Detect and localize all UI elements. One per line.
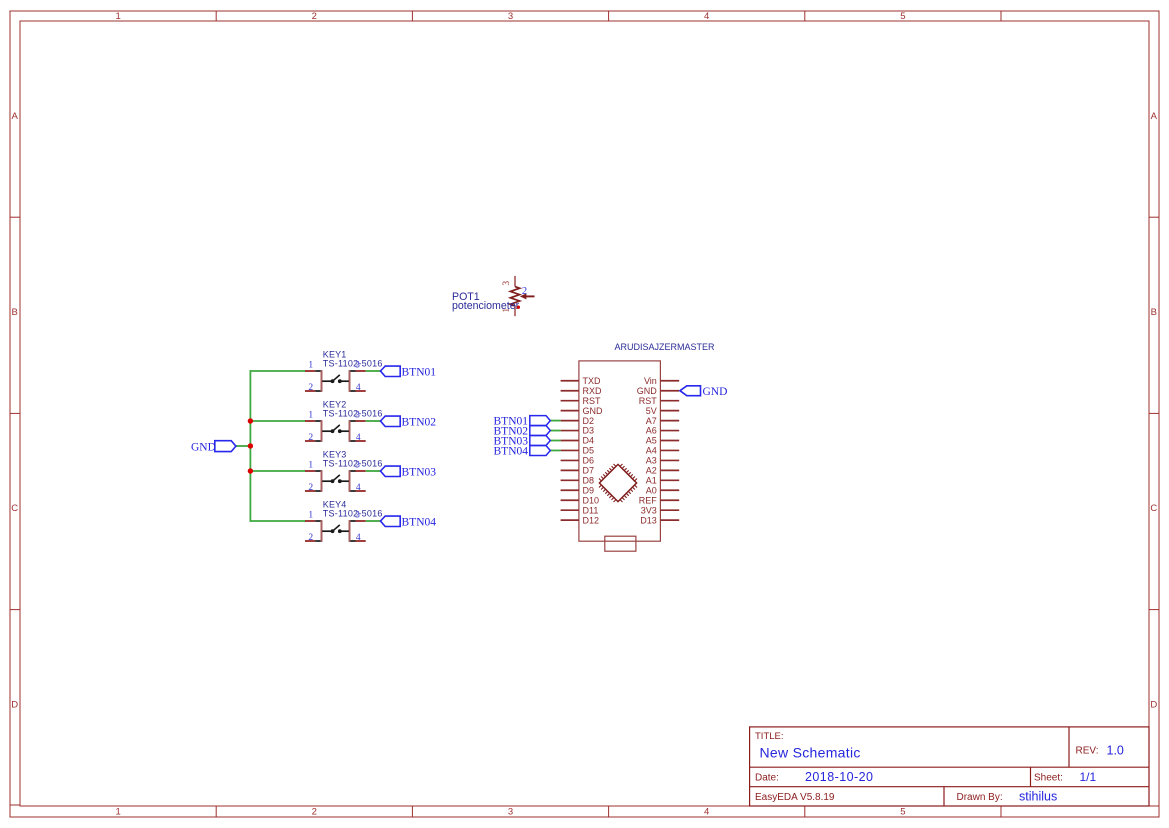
pin 4 lead KEY2 <box>356 440 366 442</box>
svg-text:TXD: TXD <box>583 376 602 386</box>
pin A1 (right) <box>660 479 679 481</box>
switch KEY4 TS-1102-5016 <box>305 499 383 542</box>
svg-text:3: 3 <box>502 281 512 286</box>
svg-text:A3: A3 <box>646 456 657 466</box>
pin A7 (right) <box>660 420 679 422</box>
svg-text:RST: RST <box>639 396 658 406</box>
pin A0 (right) <box>660 489 679 491</box>
svg-text:potenciometer: potenciometer <box>452 300 520 312</box>
svg-text:BTN01: BTN01 <box>402 366 437 378</box>
pin 2 lead KEY2 <box>305 440 315 442</box>
svg-text:TS-1102-5016: TS-1102-5016 <box>323 509 383 519</box>
pin D7 (left) <box>561 469 579 471</box>
svg-text:A: A <box>12 111 19 122</box>
svg-text:A0: A0 <box>646 485 657 495</box>
net flag GND (at U1 GND pin) <box>680 386 727 398</box>
net flag BTN03 (at U1 D4) <box>494 436 551 448</box>
pin 2 lead KEY4 <box>305 540 315 542</box>
svg-text:C: C <box>11 503 18 514</box>
wire KEY4 pin1 branch <box>250 520 306 522</box>
wire BTN03 flag to D4 <box>550 440 561 442</box>
svg-text:1: 1 <box>115 807 120 818</box>
pin 4 lead KEY3 <box>356 490 366 492</box>
pin D8 (left) <box>561 479 579 481</box>
svg-text:D6: D6 <box>583 456 595 466</box>
net flag BTN04 (at U1 D5) <box>494 446 551 458</box>
switch KEY3 TS-1102-5016 <box>305 449 383 492</box>
pin D3 (left) <box>561 430 579 432</box>
svg-text:2: 2 <box>308 533 313 543</box>
svg-text:TS-1102-5016: TS-1102-5016 <box>323 359 383 369</box>
pin 3 lead KEY2 <box>356 420 366 422</box>
pin D12 (left) <box>561 519 579 521</box>
usb connector rect <box>605 536 636 551</box>
svg-text:4: 4 <box>356 433 361 443</box>
title block <box>750 727 1149 806</box>
svg-text:D: D <box>1150 699 1157 710</box>
pin REF (right) <box>660 499 679 501</box>
svg-text:B: B <box>1151 307 1157 318</box>
pin A3 (right) <box>660 459 679 461</box>
pin 2 lead KEY1 <box>305 390 315 392</box>
pin 4 lead KEY4 <box>356 540 366 542</box>
svg-text:D4: D4 <box>583 436 595 446</box>
pin 1 lead KEY3 <box>305 470 315 472</box>
svg-text:3: 3 <box>355 411 360 421</box>
junction at KEY2 branch <box>248 418 253 423</box>
svg-text:2018-10-20: 2018-10-20 <box>805 770 873 784</box>
net flag BTN01 (at U1 D2) <box>494 416 551 428</box>
svg-text:BTN04: BTN04 <box>494 446 529 458</box>
wire BTN02 flag to D3 <box>550 430 561 432</box>
svg-text:A7: A7 <box>646 416 657 426</box>
svg-text:4: 4 <box>356 483 361 493</box>
pin 5V (right) <box>660 410 679 412</box>
pin A2 (right) <box>660 469 679 471</box>
wire GND flag stub <box>236 445 251 447</box>
wiper arrow pin 2 <box>525 295 535 297</box>
svg-text:D9: D9 <box>583 485 595 495</box>
svg-text:2: 2 <box>308 483 313 493</box>
svg-text:Drawn By:: Drawn By: <box>957 792 1003 803</box>
svg-text:A6: A6 <box>646 426 657 436</box>
svg-text:D12: D12 <box>583 515 600 525</box>
net flag GND (left) <box>191 441 236 454</box>
pin 1 lead KEY2 <box>305 420 315 422</box>
pin 1 lead KEY4 <box>305 520 315 522</box>
svg-text:3: 3 <box>355 361 360 371</box>
svg-text:D10: D10 <box>583 495 600 505</box>
net flag BTN04 (at KEY4) <box>381 516 437 528</box>
svg-text:1: 1 <box>115 11 120 22</box>
pin D4 (left) <box>561 440 579 442</box>
net flag BTN01 (at KEY1) <box>381 366 437 378</box>
svg-text:2: 2 <box>312 807 317 818</box>
wire KEY3 pin3 to BTN03 flag <box>366 470 381 472</box>
svg-text:D8: D8 <box>583 476 595 486</box>
svg-text:BTN04: BTN04 <box>402 516 437 528</box>
svg-text:A1: A1 <box>646 476 657 486</box>
svg-text:4: 4 <box>704 807 709 818</box>
svg-text:TITLE:: TITLE: <box>755 731 784 742</box>
svg-text:3: 3 <box>508 11 513 22</box>
svg-text:5: 5 <box>900 11 905 22</box>
svg-text:stihilus: stihilus <box>1019 789 1057 803</box>
pin D10 (left) <box>561 499 579 501</box>
svg-text:Vin: Vin <box>644 376 657 386</box>
svg-text:ARUDISAJZERMASTER: ARUDISAJZERMASTER <box>614 342 715 352</box>
pin A4 (right) <box>660 449 679 451</box>
switch KEY1 TS-1102-5016 <box>305 349 383 392</box>
pin 4 lead KEY1 <box>356 390 366 392</box>
svg-text:D7: D7 <box>583 466 595 476</box>
wire KEY2 pin1 branch <box>250 420 305 422</box>
svg-text:B: B <box>12 307 18 318</box>
svg-text:2: 2 <box>308 433 313 443</box>
svg-text:1/1: 1/1 <box>1080 770 1097 784</box>
pin 3 lead KEY4 <box>356 520 366 522</box>
wire BTN04 flag to D5 <box>550 449 561 451</box>
svg-text:RXD: RXD <box>583 386 603 396</box>
svg-text:3: 3 <box>355 511 360 521</box>
svg-text:GND: GND <box>583 406 604 416</box>
svg-text:BTN03: BTN03 <box>402 466 437 478</box>
svg-text:1: 1 <box>308 511 313 521</box>
svg-text:A2: A2 <box>646 466 657 476</box>
svg-text:3V3: 3V3 <box>641 505 657 515</box>
net flag BTN02 (at KEY2) <box>381 416 437 428</box>
junction at KEY3 branch <box>248 468 253 473</box>
svg-text:TS-1102-5016: TS-1102-5016 <box>323 459 383 469</box>
potentiometer POT1 <box>452 276 535 316</box>
svg-text:REV:: REV: <box>1076 746 1099 757</box>
junction at GND stub <box>248 443 253 448</box>
svg-text:2: 2 <box>312 11 317 22</box>
svg-text:A5: A5 <box>646 436 657 446</box>
wire KEY4 pin3 to BTN04 flag <box>366 520 381 522</box>
net flag BTN03 (at KEY3) <box>381 466 437 478</box>
svg-text:EasyEDA V5.8.19: EasyEDA V5.8.19 <box>755 792 835 803</box>
pin GND (right) <box>660 390 679 392</box>
svg-text:4: 4 <box>704 11 709 22</box>
svg-text:3: 3 <box>355 461 360 471</box>
svg-text:D13: D13 <box>640 515 657 525</box>
svg-text:D: D <box>11 699 18 710</box>
svg-text:D3: D3 <box>583 426 595 436</box>
svg-text:1: 1 <box>308 361 313 371</box>
svg-text:2: 2 <box>308 383 313 393</box>
svg-text:D11: D11 <box>583 505 599 515</box>
pin 2 lead KEY3 <box>305 490 315 492</box>
svg-text:GND: GND <box>637 386 658 396</box>
svg-text:REF: REF <box>639 495 658 505</box>
svg-text:5: 5 <box>900 807 905 818</box>
resistor zigzag body <box>510 287 519 306</box>
unconnected pin dot <box>517 306 520 309</box>
wire KEY1 pin1 branch <box>250 370 306 372</box>
wire GND bus vertical <box>249 370 251 522</box>
svg-text:1: 1 <box>308 411 313 421</box>
chip package glyph (diamond) <box>599 464 637 502</box>
pin RST (right) <box>660 400 679 402</box>
pin D2 (left) <box>561 420 579 422</box>
svg-text:5V: 5V <box>646 406 657 416</box>
pin 3 lead (top) <box>514 276 516 287</box>
pin A5 (right) <box>660 440 679 442</box>
pin RXD (left) <box>561 390 579 392</box>
net flag BTN02 (at U1 D3) <box>494 426 551 438</box>
pin GND (left) <box>561 410 579 412</box>
pin RST (left) <box>561 400 579 402</box>
svg-text:RST: RST <box>583 396 602 406</box>
mcu module U1 ARUDISAJZERMASTER <box>561 342 715 541</box>
svg-text:A: A <box>1151 111 1158 122</box>
pin D6 (left) <box>561 459 579 461</box>
wire KEY3 pin1 branch <box>250 470 305 472</box>
pin D5 (left) <box>561 449 579 451</box>
svg-text:D5: D5 <box>583 446 595 456</box>
wire BTN01 flag to D2 <box>550 420 561 422</box>
pin D13 (right) <box>660 519 679 521</box>
svg-text:Sheet:: Sheet: <box>1034 773 1063 784</box>
pin TXD (left) <box>561 380 579 382</box>
svg-text:C: C <box>1150 503 1157 514</box>
switch KEY2 TS-1102-5016 <box>305 399 383 442</box>
pin 3V3 (right) <box>660 509 679 511</box>
wire KEY2 pin3 to BTN02 flag <box>366 420 381 422</box>
svg-text:TS-1102-5016: TS-1102-5016 <box>323 409 383 419</box>
pin Vin (right) <box>660 380 679 382</box>
pin D11 (left) <box>561 509 579 511</box>
svg-text:1.0: 1.0 <box>1107 744 1124 758</box>
svg-text:4: 4 <box>356 383 361 393</box>
pin A6 (right) <box>660 430 679 432</box>
title block text <box>755 731 1124 803</box>
svg-text:GND: GND <box>703 386 728 398</box>
pin 3 lead KEY1 <box>356 370 366 372</box>
pin 1 lead (bottom) <box>514 305 516 316</box>
pin D9 (left) <box>561 489 579 491</box>
svg-text:A4: A4 <box>646 446 657 456</box>
svg-text:New Schematic: New Schematic <box>760 745 861 761</box>
pin 1 lead KEY1 <box>305 370 315 372</box>
svg-text:BTN02: BTN02 <box>402 416 437 428</box>
svg-text:GND: GND <box>191 441 216 453</box>
svg-text:D2: D2 <box>583 416 595 426</box>
pin 3 lead KEY3 <box>356 470 366 472</box>
svg-text:2: 2 <box>522 286 527 297</box>
svg-text:Date:: Date: <box>755 773 779 784</box>
svg-text:4: 4 <box>356 533 361 543</box>
svg-text:3: 3 <box>508 807 513 818</box>
svg-text:1: 1 <box>308 461 313 471</box>
wire KEY1 pin3 to BTN01 flag <box>366 370 381 372</box>
